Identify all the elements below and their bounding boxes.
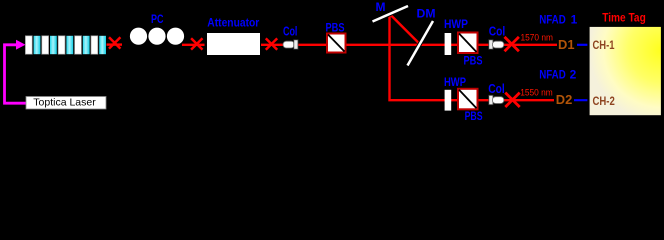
arrowhead into fiber [16,40,26,50]
beam vertical M down and row 2 [390,14,555,100]
svg-text:2: 2 [570,68,577,82]
connector X5 [505,93,519,107]
connector X4 [505,37,519,51]
svg-text:1: 1 [571,13,578,27]
svg-text:Attenuator: Attenuator [207,17,259,29]
PBS 2 [458,33,478,54]
wire: D2 to CH-2 [574,99,591,101]
svg-text:CH-2: CH-2 [593,94,616,108]
collimator 2 [489,95,504,104]
svg-text:1570 nm: 1570 nm [520,32,553,42]
svg-text:D1: D1 [558,38,575,52]
Toptica Laser box [26,97,106,110]
svg-text:D2: D2 [556,93,573,107]
connector X1 [107,37,123,48]
svg-text:PBS: PBS [464,54,483,68]
svg-text:CH-1: CH-1 [593,38,615,52]
svg-text:Time Tag: Time Tag [602,12,646,24]
svg-text:PBS: PBS [465,109,483,123]
collimator mid [283,40,298,49]
PBS 3 [458,89,478,110]
connector X2 [182,38,205,49]
svg-text:M: M [376,0,386,14]
fiber spool [25,36,106,54]
svg-text:Col: Col [488,82,505,96]
collimator 1 [489,40,504,49]
svg-text:NFAD: NFAD [539,13,566,27]
Attenuator box [207,33,260,55]
wire: laser output magenta path [5,45,27,103]
HWP 1 [445,33,452,55]
svg-text:PC: PC [151,12,164,26]
svg-text:NFAD: NFAD [539,68,566,82]
svg-text:Col: Col [283,24,298,38]
HWP 2 [445,90,452,111]
svg-text:1550 nm: 1550 nm [520,88,553,98]
Time Tag box [589,26,663,117]
svg-text:DM: DM [417,8,436,20]
wire: D1 to CH-1 [577,44,591,46]
PBS 1 [327,34,346,53]
beam row 1 [280,44,557,46]
svg-text:PBS: PBS [326,20,345,34]
dichroic mirror DM [408,21,434,66]
svg-text:Col: Col [489,25,506,39]
svg-text:HWP: HWP [444,77,466,89]
connector X3 [261,38,282,49]
svg-text:HWP: HWP [444,19,468,31]
beam diagonal DM to M [390,14,421,45]
polarization controller PC paddles [130,28,184,45]
svg-text:Toptica Laser: Toptica Laser [33,97,96,109]
mirror M [373,6,409,22]
